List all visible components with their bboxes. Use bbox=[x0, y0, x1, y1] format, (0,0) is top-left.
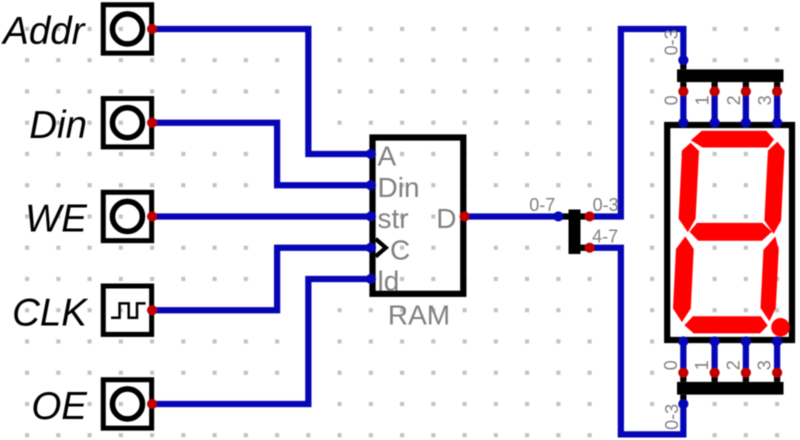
svg-text:2: 2 bbox=[724, 95, 744, 105]
svg-text:0: 0 bbox=[661, 360, 681, 370]
input dot RAM str bbox=[366, 211, 376, 221]
svg-text:Addr: Addr bbox=[1, 10, 87, 53]
svg-text:0-3: 0-3 bbox=[661, 29, 681, 55]
display segment A (top) bbox=[691, 131, 774, 148]
splitter S3 bar bbox=[677, 373, 784, 404]
input dot display top bit 3 bbox=[772, 118, 782, 128]
input dot S1 0-7 bbox=[553, 211, 563, 221]
RAM pin label ld bbox=[378, 266, 400, 297]
svg-text:1: 1 bbox=[692, 360, 712, 370]
display segment D (bottom) bbox=[684, 316, 767, 333]
wire S1 0-3 to splitter S2 bbox=[590, 29, 684, 217]
wire S2 bit 2 to display top bbox=[743, 91, 749, 122]
pin number label S3 bit 2 bbox=[723, 360, 743, 370]
svg-text:ld: ld bbox=[378, 266, 400, 297]
output dot pin OE bbox=[147, 399, 157, 409]
wire S2 bit 3 to display top bbox=[774, 91, 780, 122]
svg-text:C: C bbox=[390, 234, 410, 265]
svg-text:Din: Din bbox=[378, 172, 420, 203]
RAM U1 box bbox=[373, 138, 464, 294]
wire S1 4-7 to splitter S3 bbox=[590, 248, 684, 435]
pin number label S2 bit 0 bbox=[661, 95, 681, 105]
RAM pin label Din bbox=[378, 172, 420, 203]
output dot S1 0-3 bbox=[585, 211, 595, 221]
label CLK bbox=[12, 291, 89, 334]
display segment B (top-right) bbox=[764, 142, 784, 234]
svg-text:str: str bbox=[378, 203, 409, 234]
input dot RAM ld bbox=[366, 274, 376, 284]
RAM pin label str bbox=[378, 203, 409, 234]
wire S3 bit 1 to display bottom bbox=[711, 341, 717, 372]
svg-text:RAM: RAM bbox=[388, 299, 450, 330]
output dot S2 bit 1 bbox=[710, 86, 720, 96]
wire RAM D to splitter S1 (bus 0-7) bbox=[465, 213, 559, 219]
input dot RAM Din bbox=[366, 180, 376, 190]
label Din bbox=[29, 104, 87, 147]
output dot S2 bit 2 bbox=[741, 86, 751, 96]
wire S3 bit 2 to display bottom bbox=[743, 341, 749, 372]
svg-text:3: 3 bbox=[755, 95, 775, 105]
output dot pin Din bbox=[147, 118, 157, 128]
svg-text:3: 3 bbox=[755, 360, 775, 370]
output dot S3 bit 0 bbox=[678, 368, 688, 378]
svg-text:WE: WE bbox=[25, 198, 88, 241]
output dot S2 bit 0 bbox=[678, 86, 688, 96]
label RAM bbox=[388, 299, 450, 330]
svg-text:1: 1 bbox=[693, 95, 713, 105]
svg-text:OE: OE bbox=[31, 385, 88, 428]
label OE bbox=[31, 385, 88, 428]
input dot display top bit 0 bbox=[678, 118, 688, 128]
svg-text:CLK: CLK bbox=[12, 291, 89, 334]
label WE bbox=[25, 198, 88, 241]
input dot display bottom bit 3 bbox=[772, 336, 782, 346]
svg-text:D: D bbox=[436, 203, 456, 234]
display segment F (top-left) bbox=[679, 143, 699, 233]
display segment G (middle) bbox=[690, 223, 772, 241]
input dot display bottom bit 1 bbox=[710, 336, 720, 346]
wire S3 bit 0 to display bottom bbox=[680, 341, 686, 372]
wire Addr to RAM A bbox=[152, 29, 371, 154]
RAM pin label D bbox=[436, 203, 456, 234]
output dot pin Addr bbox=[147, 24, 157, 34]
RAM pin label A bbox=[378, 141, 397, 172]
value label 0-3 bbox=[593, 195, 619, 215]
input dot display top bit 1 bbox=[710, 118, 720, 128]
pin number label S3 bit 0 bbox=[661, 360, 681, 370]
input dot RAM C bbox=[366, 243, 376, 253]
value label 0-7 bbox=[529, 195, 555, 215]
input dot RAM A bbox=[366, 149, 376, 159]
wire S2 bit 1 to display top bbox=[711, 91, 717, 122]
value label S2 0-3 bbox=[661, 29, 681, 55]
wire Din to RAM Din bbox=[152, 123, 371, 186]
svg-text:A: A bbox=[378, 141, 397, 172]
pin number label S2 bit 3 bbox=[755, 95, 775, 105]
display segment E (bottom-left) bbox=[673, 236, 694, 322]
wire OE to RAM ld bbox=[152, 279, 371, 404]
input dot display top bit 2 bbox=[741, 118, 751, 128]
wire WE to RAM str bbox=[152, 213, 371, 219]
display segment C (bottom-right) bbox=[761, 236, 779, 321]
svg-text:4-7: 4-7 bbox=[592, 226, 618, 246]
pin number label S2 bit 2 bbox=[724, 95, 744, 105]
value label 4-7 bbox=[592, 226, 618, 246]
clock edge marker at RAM C pin bbox=[376, 239, 386, 257]
output dot S3 bit 1 bbox=[710, 368, 720, 378]
svg-text:0: 0 bbox=[661, 95, 681, 105]
value label S3 0-3 bbox=[662, 404, 682, 430]
RAM pin label C bbox=[390, 234, 410, 265]
input pin WE bbox=[103, 192, 151, 240]
output dot pin WE bbox=[147, 211, 157, 221]
wire S3 bit 3 to display bottom bbox=[774, 341, 780, 372]
output dot S1 4-7 bbox=[585, 243, 595, 253]
output dot pin CLK bbox=[147, 305, 157, 315]
input dot S3 0-3 bbox=[678, 399, 688, 409]
display decimal point bbox=[771, 318, 790, 337]
output dot RAM D bbox=[460, 211, 470, 221]
seven-segment display DS1 frame bbox=[667, 125, 792, 340]
input pin OE bbox=[103, 380, 151, 428]
wire S2 bit 0 to display top bbox=[680, 91, 686, 122]
input pin Addr bbox=[103, 5, 151, 53]
label Addr bbox=[1, 10, 87, 53]
input pin Din bbox=[103, 99, 151, 147]
svg-text:Din: Din bbox=[29, 104, 87, 147]
pin number label S3 bit 1 bbox=[692, 360, 712, 370]
pin number label S3 bit 3 bbox=[755, 360, 775, 370]
input dot display bottom bit 0 bbox=[678, 336, 688, 346]
svg-text:0-3: 0-3 bbox=[593, 195, 619, 215]
output dot S2 bit 3 bbox=[772, 86, 782, 96]
input dot S2 0-3 bbox=[678, 55, 688, 65]
wire CLK to RAM C bbox=[152, 248, 371, 311]
pin number label S2 bit 1 bbox=[693, 95, 713, 105]
svg-text:2: 2 bbox=[723, 360, 743, 370]
input dot display bottom bit 2 bbox=[741, 336, 751, 346]
svg-text:0-7: 0-7 bbox=[529, 195, 555, 215]
output dot S3 bit 3 bbox=[772, 368, 782, 378]
input pin CLK bbox=[103, 286, 151, 334]
splitter S2 bar bbox=[677, 60, 784, 91]
splitter S1 bar bbox=[558, 210, 589, 255]
output dot S3 bit 2 bbox=[741, 368, 751, 378]
svg-text:0-3: 0-3 bbox=[662, 404, 682, 430]
